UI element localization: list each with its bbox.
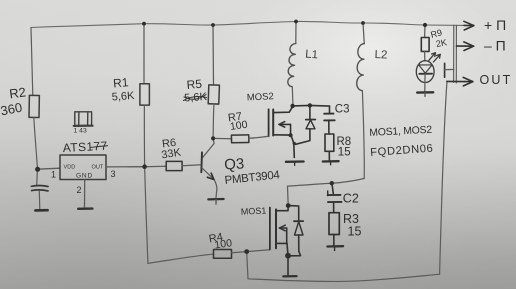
svg-text:R5: R5 — [186, 77, 203, 92]
svg-text:OUT: OUT — [92, 165, 104, 171]
svg-text:GND: GND — [76, 173, 93, 180]
svg-text:MOS2: MOS2 — [247, 91, 274, 103]
svg-text:OUT: OUT — [480, 73, 513, 87]
svg-text:15: 15 — [338, 147, 351, 159]
svg-text:3: 3 — [111, 169, 116, 179]
svg-text:– П: – П — [484, 38, 506, 54]
svg-text:VDD: VDD — [64, 165, 76, 171]
svg-text:L1: L1 — [305, 49, 319, 62]
svg-text:L2: L2 — [374, 49, 387, 61]
svg-text:C3: C3 — [335, 104, 350, 116]
svg-text:ATS177: ATS177 — [62, 139, 108, 155]
svg-text:1: 1 — [51, 170, 56, 180]
svg-text:MOS1: MOS1 — [241, 205, 267, 216]
svg-text:100: 100 — [214, 237, 233, 251]
svg-text:2: 2 — [77, 185, 82, 195]
svg-text:Q3: Q3 — [224, 155, 245, 173]
svg-text:1 43: 1 43 — [74, 128, 87, 135]
svg-text:100: 100 — [229, 119, 248, 133]
svg-text:15: 15 — [348, 225, 362, 239]
svg-text:R2: R2 — [8, 84, 27, 101]
svg-text:2K: 2K — [435, 37, 448, 49]
svg-text:R1: R1 — [113, 75, 130, 90]
svg-text:C2: C2 — [343, 192, 359, 206]
svg-text:5,6K: 5,6K — [111, 90, 135, 104]
svg-text:+ П: + П — [484, 17, 506, 33]
svg-text:5,6K: 5,6K — [184, 91, 208, 105]
